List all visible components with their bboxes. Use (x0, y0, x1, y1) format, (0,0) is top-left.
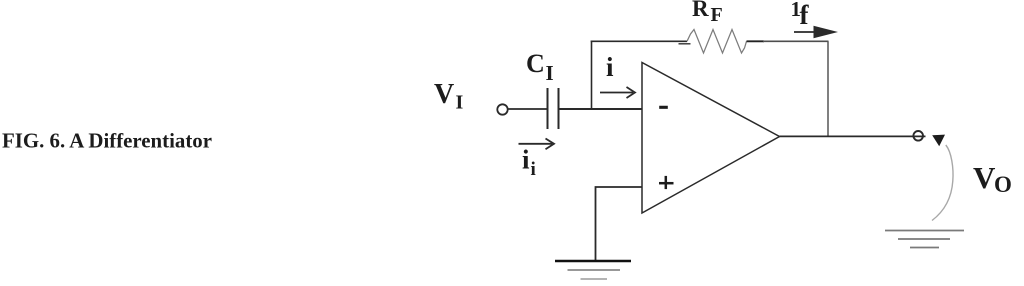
wire feedback branch vertical up (591, 41, 593, 110)
wire corner gray segment (763, 40, 829, 42)
svg-text:V: V (434, 79, 454, 110)
svg-text:i: i (522, 145, 530, 175)
svg-text:O: O (994, 172, 1012, 197)
ground right (885, 231, 964, 248)
svg-text:i: i (606, 52, 614, 82)
probe arrow down (932, 135, 945, 147)
resistor RF (687, 0, 747, 53)
wire input to capacitor (508, 108, 547, 110)
op-amp U1 (642, 63, 780, 214)
wire feedback vertical down to output (827, 41, 829, 137)
svg-text:R: R (692, 0, 709, 21)
output terminal (913, 131, 923, 141)
wire lead dash at resistor left (679, 43, 691, 45)
input terminal (497, 104, 507, 114)
wire non-inverting input to ground (596, 187, 643, 261)
node VI label (434, 79, 464, 114)
svg-text:I: I (546, 61, 554, 85)
svg-text:I: I (456, 91, 464, 113)
ground left (555, 261, 631, 279)
node VO label (973, 160, 1012, 197)
svg-text:FIG. 6. A Differentiator: FIG. 6. A Differentiator (2, 128, 212, 152)
current arrow if (791, 0, 839, 38)
current arrow ii (519, 139, 555, 181)
wire output (780, 135, 926, 137)
capacitor CI (526, 49, 559, 129)
wire top feedback left segment (591, 40, 687, 42)
svg-text:V: V (973, 160, 996, 195)
svg-text:C: C (526, 49, 545, 78)
wire capacitor to op-amp inverting input (559, 108, 642, 110)
wire resistor to corner (747, 40, 765, 42)
svg-text:F: F (711, 4, 723, 26)
current arrow i (600, 52, 635, 98)
svg-text:f: f (800, 0, 810, 30)
svg-text:i: i (531, 159, 536, 180)
measurement arc (932, 145, 953, 221)
